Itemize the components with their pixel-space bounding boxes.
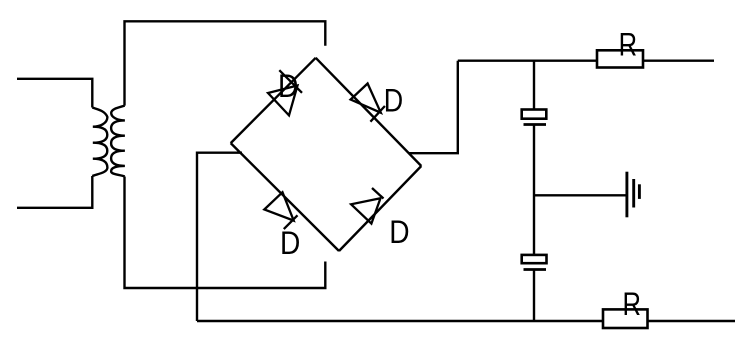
capacitor C1: [522, 110, 547, 125]
resistor R1: [597, 50, 643, 67]
wire bottom output rail: [197, 320, 735, 322]
wire top output rail: [458, 60, 714, 62]
diode D3: [264, 192, 297, 229]
wire ground branch: [534, 194, 626, 196]
wire capacitor rail top: [533, 61, 535, 110]
wire capacitor rail bottom: [533, 270, 535, 322]
capacitor C2: [522, 255, 547, 270]
ground: [627, 172, 640, 218]
wire primary bottom: [17, 176, 92, 208]
svg-text:R: R: [619, 28, 637, 63]
svg-text:D: D: [384, 83, 403, 119]
svg-text:D: D: [278, 69, 298, 104]
wire secondary bottom to bottom rail: [125, 177, 326, 289]
bridge edge top-left: [231, 58, 316, 143]
diode D2: [351, 84, 385, 122]
wire left bridge corner to bottom rail: [197, 153, 242, 321]
svg-text:R: R: [623, 287, 641, 322]
wire right bridge corner up: [409, 61, 458, 154]
bridge edge top-right: [316, 58, 422, 166]
diode D4: [351, 188, 383, 224]
diode D1: [268, 70, 302, 115]
bridge edge bottom-right: [339, 166, 421, 251]
resistor R2: [603, 309, 648, 328]
svg-text:D: D: [280, 226, 300, 261]
svg-text:D: D: [389, 215, 409, 250]
wire secondary top to top rail: [125, 21, 326, 105]
bridge edge bottom-left: [231, 143, 339, 251]
wire capacitor rail middle: [533, 125, 535, 255]
transformer T1 primary winding: [92, 108, 107, 177]
wire primary top: [17, 79, 92, 108]
transformer T1 secondary winding: [111, 106, 125, 177]
